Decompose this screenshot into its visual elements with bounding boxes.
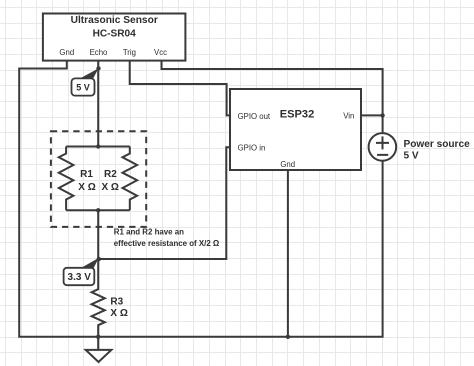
node: ESP32 Gnd to rail — [286, 335, 290, 339]
wire: HC-SR04 Gnd pin down-left-down to bottom rail, along bottom, up to power source minus — [19, 61, 382, 337]
wire: Vin stub from power line into ESP32 — [361, 114, 383, 116]
svg-text:ESP32: ESP32 — [280, 109, 315, 121]
wire: ESP32 Gnd down to bottom rail — [287, 170, 289, 337]
svg-text:HC-SR04: HC-SR04 — [93, 29, 137, 40]
wire: Vcc pin down, right along top, down to Vin node / power source plus — [162, 61, 383, 134]
wire: parallel top bus — [66, 146, 130, 148]
svg-text:effective resistance of X/2 Ω: effective resistance of X/2 Ω — [114, 239, 219, 248]
svg-text:Vcc: Vcc — [154, 48, 167, 57]
wire: bottom node down to 3.3V node — [97, 210, 99, 259]
svg-text:Gnd: Gnd — [59, 48, 74, 57]
node: Vin junction — [380, 113, 384, 117]
svg-text:3.3 V: 3.3 V — [68, 272, 92, 283]
resistor R2 — [123, 147, 138, 211]
svg-text:X Ω: X Ω — [110, 308, 127, 319]
dashed enclosure around R1/R2 — [51, 131, 146, 227]
svg-text:X Ω: X Ω — [101, 182, 118, 193]
svg-text:X Ω: X Ω — [78, 182, 95, 193]
node: parallel top — [96, 144, 100, 148]
box: ESP32 — [230, 89, 361, 170]
svg-text:GPIO in: GPIO in — [238, 143, 266, 152]
power source V1 — [369, 133, 397, 161]
resistor R3 — [92, 259, 105, 337]
svg-text:R2: R2 — [104, 169, 117, 180]
svg-text:Trig: Trig — [123, 48, 136, 57]
svg-text:5 V: 5 V — [404, 150, 419, 161]
box: Ultrasonic Sensor HC-SR04 — [43, 14, 186, 61]
node: parallel bottom — [96, 208, 100, 212]
node: Echo 5V tap — [96, 66, 100, 70]
node: 3.3V divider tap — [97, 257, 101, 261]
ground — [86, 350, 112, 362]
svg-text:R3: R3 — [110, 297, 123, 308]
svg-text:5 V: 5 V — [76, 82, 90, 92]
callout 5 V — [79, 68, 99, 79]
wire: GPIO in left, down, left to divider node — [98, 147, 230, 259]
svg-text:Power source: Power source — [404, 139, 471, 150]
svg-text:Ultrasonic Sensor: Ultrasonic Sensor — [71, 15, 158, 26]
wire: Echo pin down to parallel resistors top node — [97, 61, 99, 147]
wire: Trig down, right, down to GPIO out — [130, 61, 230, 116]
svg-text:R1 and R2 have an: R1 and R2 have an — [114, 227, 184, 236]
node: R3 to rail / ground — [96, 335, 100, 339]
svg-text:Gnd: Gnd — [280, 160, 295, 169]
wire: parallel bottom bus — [66, 209, 130, 211]
svg-text:GPIO out: GPIO out — [238, 112, 271, 121]
wire: ground stub — [97, 337, 99, 350]
callout 3.3 V — [80, 258, 99, 269]
svg-text:Vin: Vin — [343, 112, 354, 121]
svg-text:Echo: Echo — [90, 48, 108, 57]
resistor R1 — [59, 147, 74, 211]
svg-text:R1: R1 — [80, 169, 93, 180]
